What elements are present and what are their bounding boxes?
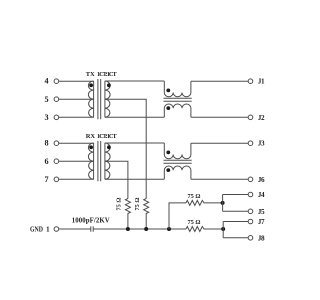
svg-text:J1: J1 (258, 78, 265, 86)
junction dot rail to R3 branch (167, 227, 171, 231)
wire split to J7 and J8 (223, 222, 248, 238)
wire TX secondary top to choke L1 (105, 80, 164, 82)
pin J6 terminal circle (248, 177, 253, 182)
capacitor C1 (91, 226, 93, 231)
svg-text:1: 1 (46, 225, 50, 234)
pin J3 terminal circle (248, 141, 253, 146)
wire RX secondary bottom to choke L2 (105, 178, 164, 180)
svg-text:1000pF/2KV: 1000pF/2KV (72, 218, 110, 225)
wire choke L1 to J1 (191, 80, 248, 82)
pin 3 terminal circle (54, 115, 59, 120)
svg-text:J6: J6 (258, 176, 265, 184)
wire capacitor C1 to termination rail (93, 228, 186, 230)
resistor R2 75 ohm (TX tap termination) (144, 199, 149, 230)
svg-text:J4: J4 (258, 191, 265, 199)
choke L1 top winding polarity dot (166, 89, 170, 93)
pin 5 terminal circle (54, 97, 59, 102)
svg-text:J2: J2 (258, 114, 265, 122)
transformer RX secondary polarity dot (107, 145, 111, 149)
choke L2 bottom winding polarity dot (166, 168, 170, 172)
svg-text:4: 4 (44, 77, 48, 86)
wire RX secondary center tap to R1 drop (105, 161, 128, 198)
transformer TX primary polarity dot (89, 83, 93, 87)
transformer RX primary polarity dot (89, 145, 93, 149)
pin J8 terminal circle (248, 236, 253, 241)
svg-text:J3: J3 (258, 140, 265, 148)
pin 7 terminal circle (54, 177, 59, 182)
svg-text:75 Ω: 75 Ω (188, 219, 201, 226)
wire pin6 to RX primary center tap (59, 160, 94, 162)
wire pin7 to RX primary bottom (59, 178, 94, 180)
wire split to J4 and J5 (223, 195, 249, 212)
resistor R4 75 ohm (J7/J8 termination) (186, 227, 223, 232)
junction dot R3 to J4/J5 split (221, 201, 225, 205)
wire TX secondary center tap to R2 drop (105, 99, 146, 198)
svg-text:75 Ω: 75 Ω (188, 193, 201, 200)
transformer RX core (98, 141, 101, 181)
svg-text:6: 6 (44, 157, 48, 166)
pin J5 terminal circle (248, 209, 253, 214)
pin 6 terminal circle (54, 159, 59, 164)
svg-text:7: 7 (44, 175, 48, 184)
choke L1 bottom winding (164, 104, 191, 117)
transformer TX secondary polarity dot (107, 83, 111, 87)
wire choke L2 to J3 (191, 142, 248, 144)
choke L1 bottom winding polarity dot (166, 106, 170, 110)
svg-text:RX: RX (86, 133, 96, 140)
wire pin5 to TX primary center tap (59, 98, 94, 100)
svg-text:8: 8 (44, 139, 48, 148)
GND terminal circle (54, 227, 59, 232)
transformer RX secondary winding (105, 143, 110, 179)
wire TX secondary bottom to choke L1 (105, 116, 164, 118)
svg-text:3: 3 (44, 113, 48, 122)
wire RX secondary top to choke L2 (105, 142, 164, 144)
transformer RX primary winding (88, 143, 93, 179)
wire rail up to resistor R3 (169, 203, 186, 229)
svg-text:75 Ω: 75 Ω (134, 198, 141, 211)
wire GND to capacitor C1 (59, 228, 91, 230)
transformer TX secondary winding (105, 81, 110, 117)
pin J2 terminal circle (248, 115, 253, 120)
wire choke L1 to J2 (191, 116, 248, 118)
wire choke L2 to J6 (191, 178, 248, 180)
resistor R1 75 ohm (RX tap termination) (125, 199, 130, 230)
choke L1 top winding (164, 81, 191, 97)
pin J4 terminal circle (248, 192, 253, 197)
wire pin3 to TX primary bottom (59, 116, 94, 118)
choke L2 bottom winding (164, 166, 191, 179)
svg-text:5: 5 (44, 95, 48, 104)
svg-text:J8: J8 (258, 234, 265, 242)
choke L1 core (164, 98, 192, 101)
junction dot R1 to rail (126, 227, 130, 231)
transformer TX primary winding (88, 81, 93, 117)
pin J7 terminal circle (248, 219, 253, 224)
svg-text:J5: J5 (258, 208, 265, 216)
choke L2 core (164, 160, 192, 163)
svg-text:J7: J7 (258, 218, 265, 226)
svg-text:1CT:1CT: 1CT:1CT (97, 133, 117, 140)
svg-text:75 Ω: 75 Ω (116, 198, 123, 211)
svg-text:1CT:1CT: 1CT:1CT (97, 71, 117, 78)
wire pin4 to TX primary top (59, 80, 94, 82)
junction dot R4 to J7/J8 split (221, 227, 225, 231)
svg-text:GND: GND (30, 226, 43, 234)
svg-text:TX: TX (86, 71, 95, 78)
pin 4 terminal circle (54, 79, 59, 84)
choke L2 top winding (164, 143, 191, 159)
choke L2 top winding polarity dot (166, 151, 170, 155)
resistor R3 75 ohm (J4/J5 termination) (186, 200, 223, 205)
junction dot R2 to rail (144, 227, 148, 231)
pin J1 terminal circle (248, 79, 253, 84)
pin 8 terminal circle (54, 141, 59, 146)
transformer TX core (98, 79, 101, 119)
wire pin8 to RX primary top (59, 142, 94, 144)
